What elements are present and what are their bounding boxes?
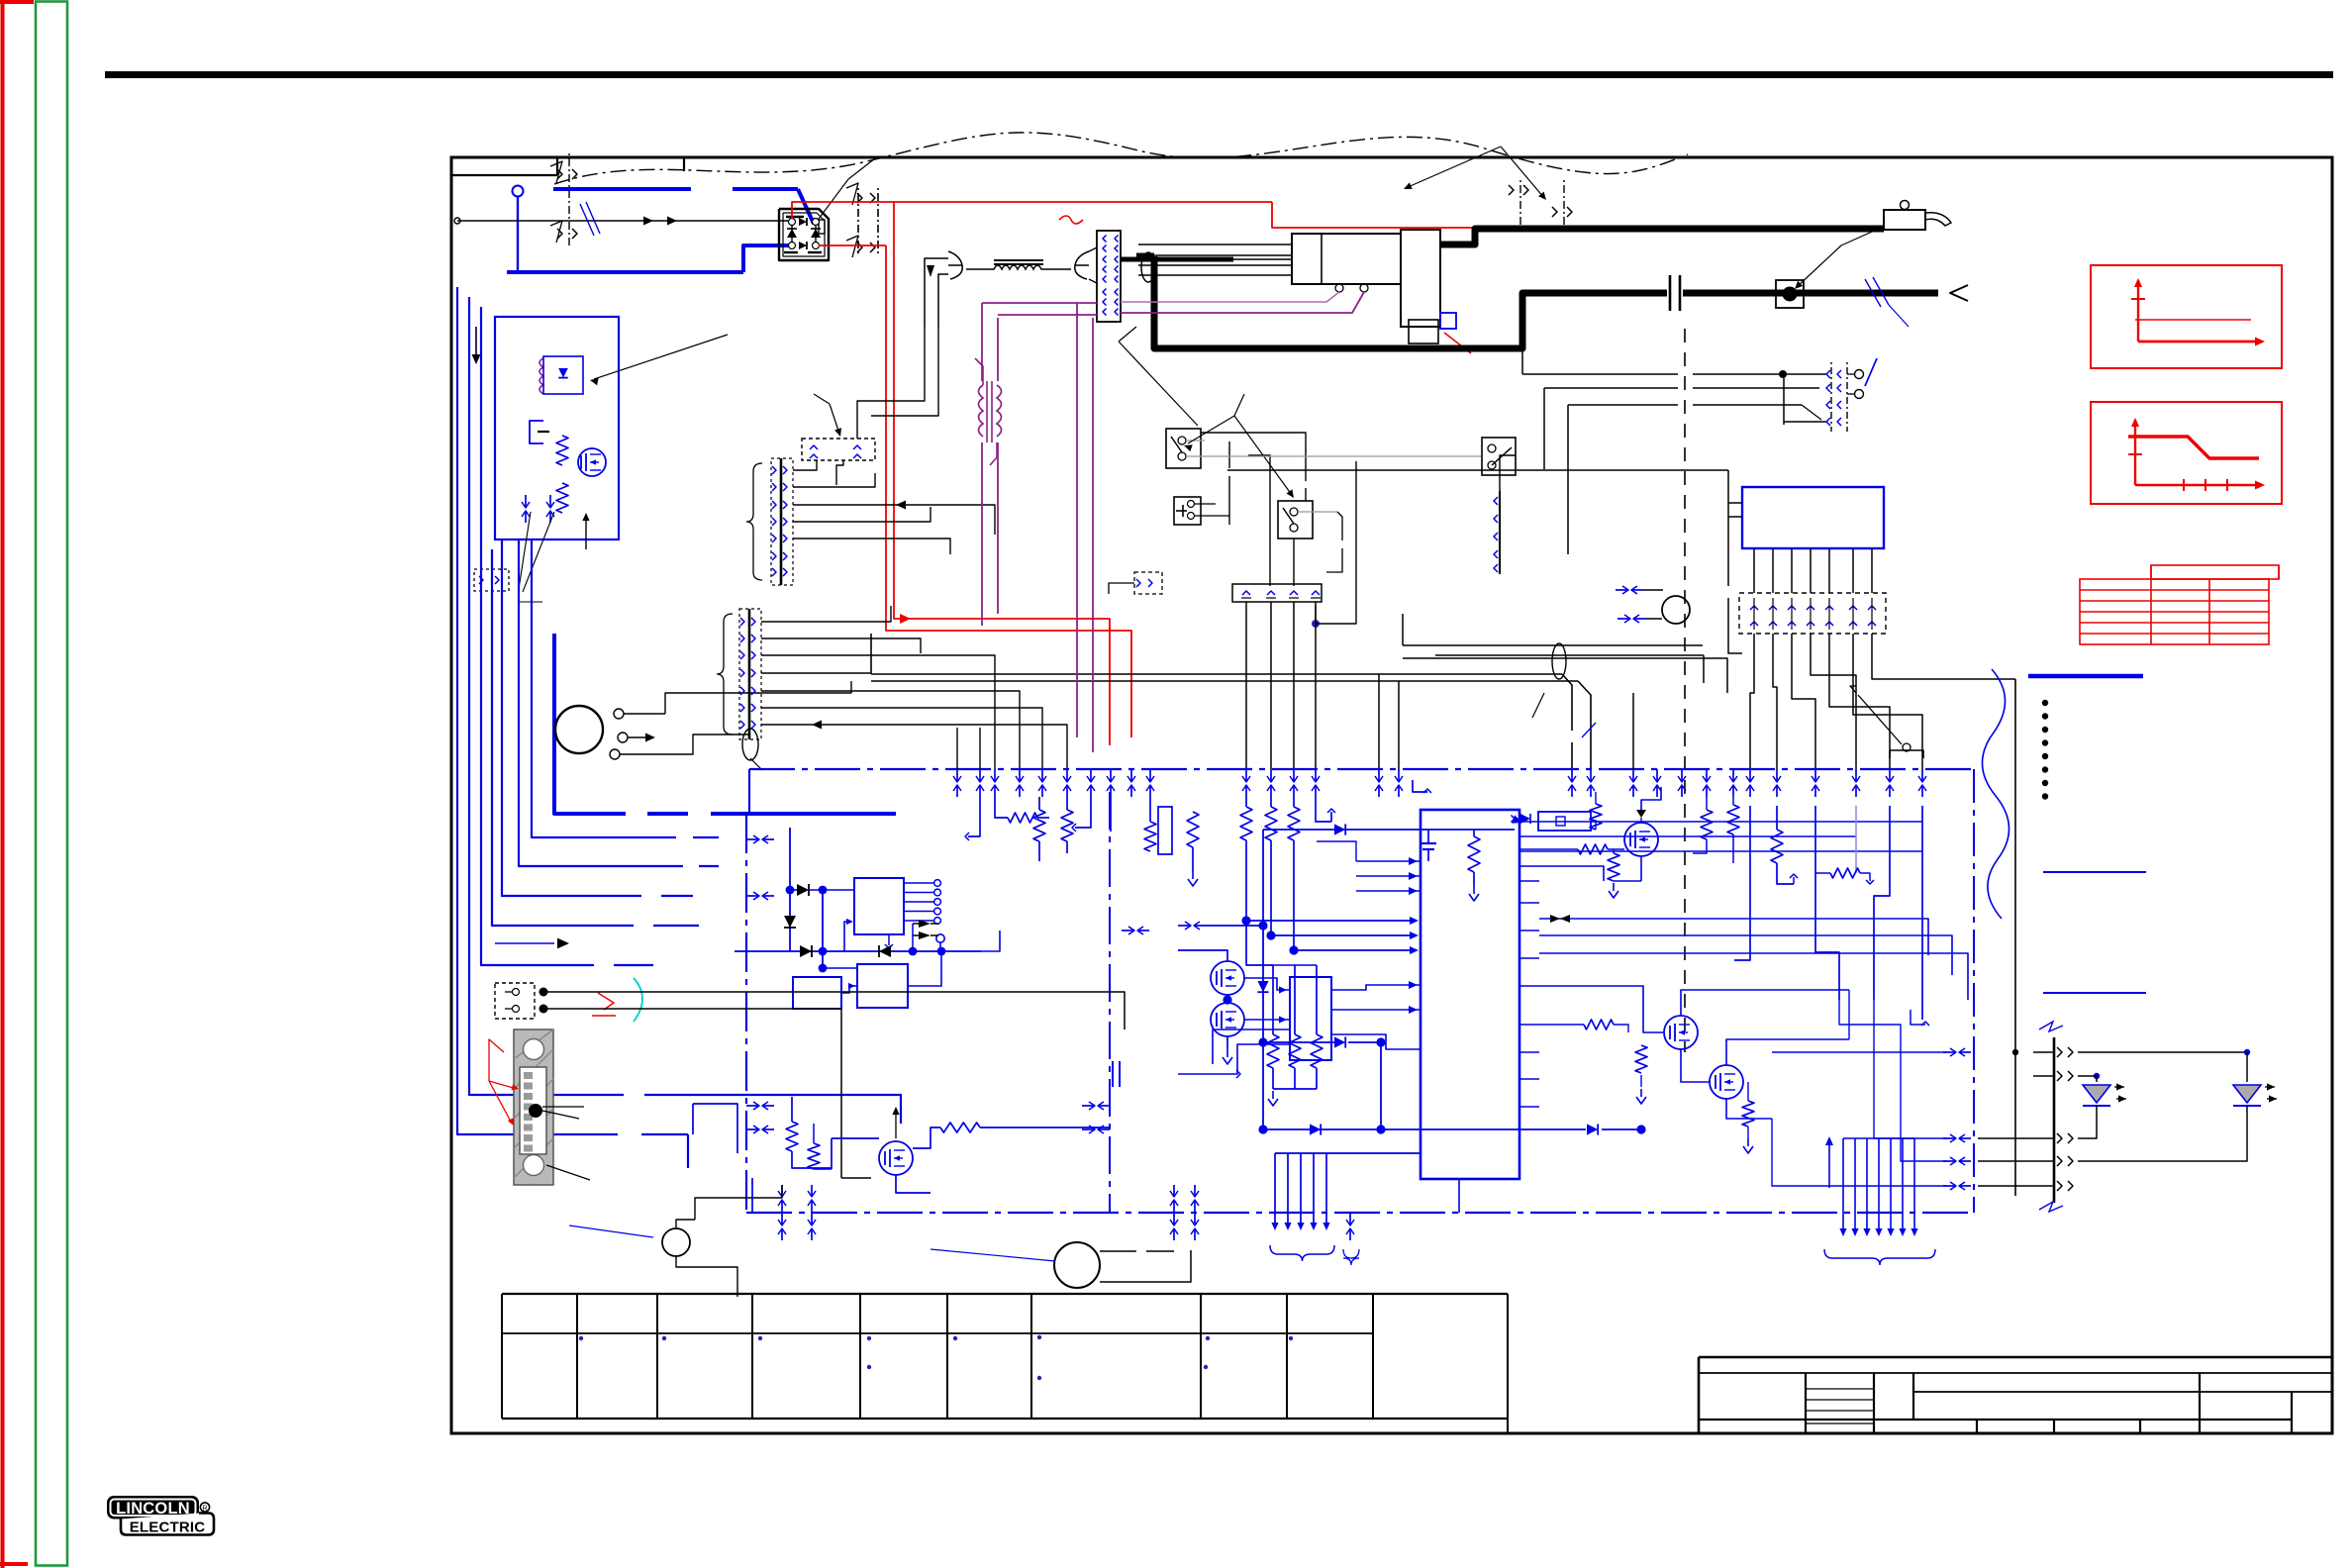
circle leader blue — [931, 1249, 1055, 1261]
aux box feed — [844, 922, 851, 951]
CT ellipse on feed — [1141, 252, 1155, 282]
q5 gate resistor — [940, 1123, 980, 1132]
switch S2 box — [1278, 501, 1313, 539]
blue supply wire 2 — [507, 270, 743, 274]
line break slash — [580, 204, 594, 236]
mosfet pair — [1211, 961, 1244, 995]
output connector strip — [2053, 1037, 2056, 1203]
right long lines to pins — [1886, 850, 1922, 852]
relay K1 coil — [539, 358, 543, 394]
opto arrows — [919, 920, 931, 928]
red wire top right — [1272, 202, 1520, 228]
display connector risers — [1750, 634, 1754, 769]
strip J2 fan wires — [761, 606, 891, 622]
CN5 risers to bus — [1245, 602, 1247, 769]
mcu bus entry — [981, 931, 1000, 951]
output wires to LEDs — [2078, 1051, 2247, 1053]
blue wires bottom left risers — [693, 1104, 737, 1153]
bus1-bus2 vertical link — [745, 814, 747, 1213]
net mid right — [1539, 919, 1928, 955]
aux box out right — [908, 951, 941, 986]
display pcb block — [1742, 487, 1884, 548]
bus gap pin mid — [1178, 925, 1190, 927]
q5 input resistors — [786, 1122, 798, 1151]
current shunt — [1776, 280, 1804, 308]
blue diagonal into bridge — [798, 189, 814, 224]
right net top — [1539, 821, 1922, 823]
page red margin border — [1, 0, 5, 1568]
CT loop on feed — [1552, 643, 1566, 679]
aux box row — [793, 977, 841, 1009]
test circle — [936, 934, 944, 942]
main schematic border frame — [451, 157, 2332, 1433]
choke core — [994, 259, 1043, 261]
page green margin box — [36, 2, 67, 1566]
connector strip CN4 — [1097, 231, 1121, 322]
relay contact — [530, 421, 543, 443]
dac box — [854, 878, 904, 934]
diode D11 down — [784, 916, 796, 928]
mcu bottom left fan — [1275, 1152, 1421, 1154]
motor terminal circles — [1335, 284, 1343, 292]
mcu block — [1421, 810, 1519, 1179]
diode down x1276 — [1257, 981, 1268, 992]
right pin tails — [1734, 806, 1750, 960]
blue lower risers — [481, 307, 594, 965]
mosfet Q1 right — [1624, 823, 1658, 856]
bus2 blue line — [746, 1212, 1974, 1214]
dac input rail — [789, 828, 791, 951]
thick black weld cable B — [1136, 253, 1154, 260]
choke fork right — [1075, 251, 1089, 279]
engine circle — [555, 706, 603, 753]
leader arrows top right — [1406, 147, 1501, 188]
bus1 pin symbols — [956, 769, 958, 781]
black vertical feed right — [2014, 679, 2016, 1052]
wire feed motor block — [1292, 234, 1401, 284]
rotary switch lever — [1855, 370, 1864, 379]
leader arrows shunt — [1797, 245, 1841, 287]
cable end fork — [1950, 285, 1968, 301]
frame top-left step — [451, 174, 557, 176]
bridge rectifier BR1 — [779, 209, 829, 260]
riser to far right — [1872, 634, 2015, 679]
control box pins — [525, 495, 527, 507]
connector table — [502, 1293, 1508, 1295]
small dashed connector — [474, 569, 509, 591]
blue diode rail — [1263, 829, 1515, 831]
led D2 — [2233, 1085, 2261, 1103]
led return wires — [2078, 1106, 2097, 1138]
bus2 pin right — [1349, 1213, 1351, 1225]
mid resistors under bus — [1038, 797, 1040, 810]
choke coil — [966, 265, 1071, 269]
connector strip J1 — [780, 458, 783, 585]
mosfet Q10 — [578, 448, 606, 476]
strip top connector box — [802, 439, 875, 460]
mosfet Q5 bottom — [879, 1141, 913, 1175]
purple transformer T2 — [986, 381, 988, 442]
diode D13 left — [879, 945, 891, 957]
vertical link x1121 — [1109, 792, 1111, 1213]
red graph 2 frame — [2091, 402, 2282, 504]
gate resistor q1 — [1578, 844, 1608, 854]
connector row CN5 — [1232, 584, 1322, 602]
gray link S1-S4 — [1205, 455, 1482, 457]
bus2 pins left — [781, 1213, 783, 1225]
bus risers from switch area — [1632, 693, 1634, 769]
bold blue riser — [554, 634, 626, 814]
fan small brace — [1343, 1249, 1359, 1265]
display connector CN7 — [1739, 593, 1886, 634]
diode row 2 — [1334, 1036, 1345, 1047]
leader to strip box — [830, 404, 839, 434]
mcu bottom wire to bus2 — [1458, 1179, 1460, 1213]
choke fork left — [948, 251, 962, 279]
rotary connector strip — [1830, 362, 1832, 432]
svg-text:ELECTRIC: ELECTRIC — [130, 1519, 206, 1536]
display block pins down — [1753, 548, 1755, 593]
pin stub 1329 — [1316, 797, 1331, 822]
mosfet Q4 — [1710, 1065, 1743, 1099]
pin resistors 1724 1751 — [1701, 810, 1713, 839]
lincoln electric logo — [107, 1496, 214, 1536]
buzzer leader — [569, 1225, 653, 1237]
mcu right outputs — [1519, 821, 1539, 823]
dac outputs — [904, 882, 933, 884]
mode switch connector — [1499, 491, 1501, 574]
junction rail y961 — [735, 950, 981, 952]
main blue bus line — [749, 768, 1974, 770]
bus2 right fan group — [1842, 1138, 1844, 1231]
leader arrows switches — [1234, 394, 1244, 416]
break slashes blue — [1865, 279, 1881, 307]
riser jumper box — [1890, 750, 1923, 758]
switch S3 battery box — [1174, 497, 1201, 525]
capacitor on cable B — [1669, 275, 1672, 311]
vertical join — [822, 890, 824, 968]
driver box — [1290, 977, 1331, 1060]
hook below bus — [1413, 780, 1427, 792]
purple lower run — [981, 442, 983, 626]
purple wires — [981, 303, 983, 381]
left blue riser 2 — [519, 539, 683, 866]
leader to relay — [594, 335, 728, 379]
red wire from bridge — [792, 202, 1272, 219]
J2 brace — [717, 614, 733, 735]
red small arrow mid — [598, 993, 614, 1010]
cable S separator left — [1982, 669, 2009, 919]
net lower right — [1539, 986, 1663, 1032]
CT circle — [1662, 596, 1690, 624]
svg-text:R: R — [202, 1506, 207, 1513]
ladder joins — [1246, 871, 1416, 921]
wires to mosfet Q5 — [841, 1177, 871, 1179]
left blue riser 3 — [502, 539, 641, 896]
aux box wires — [547, 991, 643, 993]
red data table — [2080, 579, 2269, 644]
thick black weld cable A — [1440, 229, 1884, 245]
harness wavy cable run — [554, 133, 1688, 184]
bold blue stub right — [2028, 674, 2143, 679]
mode switch box S4 — [1482, 438, 1516, 475]
connector CN2 — [857, 188, 859, 255]
aux connector box left — [495, 983, 535, 1019]
vertical link right — [1973, 769, 1975, 1213]
red spark line — [1444, 333, 1471, 353]
dashed partition line — [1684, 329, 1686, 1052]
red pair vertical run — [894, 202, 1110, 745]
led D1 — [2083, 1085, 2110, 1103]
connector strip J2 — [748, 609, 751, 739]
title block — [1699, 1356, 2332, 1359]
input blue lead — [517, 197, 519, 272]
control box rect — [495, 317, 619, 539]
leader arrows from pins — [519, 512, 531, 589]
mid L stubs — [1075, 797, 1091, 828]
driver inputs left — [1178, 1044, 1290, 1074]
switch S1 box — [1166, 429, 1201, 468]
aux motor circle — [1054, 1242, 1100, 1288]
blue arrow mark — [495, 942, 554, 944]
table cell marks — [579, 1336, 583, 1340]
display block wires left — [1728, 502, 1742, 504]
bold blue bottom run — [457, 1133, 618, 1135]
diode row 3 bottom — [1263, 1128, 1326, 1130]
lower resistor trio — [1272, 965, 1274, 1034]
CN5 dot link — [1312, 620, 1320, 628]
long black mid wires — [1403, 644, 1703, 646]
connector CN1 — [568, 153, 570, 247]
top title rule — [105, 71, 2333, 78]
led bar panel — [514, 1029, 553, 1185]
black risers x1393 — [1378, 674, 1380, 769]
left blue riser 1 — [532, 539, 676, 837]
engine terminals — [614, 709, 624, 719]
opto input box — [1538, 812, 1591, 831]
cyan arc — [634, 978, 642, 1022]
dac ground — [888, 934, 890, 945]
bottom pins mid — [1173, 1213, 1175, 1225]
terminal dots column — [2042, 700, 2048, 706]
double black feed line — [871, 673, 1562, 675]
weld gun — [1884, 210, 1925, 230]
diode D12 — [800, 945, 812, 957]
buzzer circle — [662, 1228, 690, 1256]
L stub top right — [1911, 1010, 1925, 1025]
cap and resistor branch — [1427, 830, 1429, 843]
input terminal circle — [513, 186, 524, 197]
fan brace — [1270, 1245, 1334, 1261]
led bar leaders black — [542, 1111, 579, 1119]
vertical drop x1276 — [1262, 926, 1264, 1129]
red graph 1 axes — [2137, 280, 2139, 342]
thin supply line — [457, 220, 789, 222]
output pins blue — [1943, 1051, 1955, 1053]
leader arrow to cable — [816, 179, 848, 223]
red graph 2 curve — [2134, 420, 2136, 485]
down arrow — [475, 327, 477, 358]
pin arrow up — [585, 515, 587, 549]
right rotary switch wires — [1522, 373, 1678, 375]
led bar leaders red — [489, 1039, 517, 1089]
blue long bottom wire — [469, 1094, 624, 1096]
cap bars on link — [1112, 1061, 1114, 1087]
feed line y475 — [1227, 469, 1728, 471]
transformer connector CN3 — [1519, 180, 1521, 226]
blue supply wire top — [553, 187, 691, 191]
S1 wires — [1201, 433, 1306, 481]
wire loop sensor — [742, 729, 758, 760]
strip J1 fan wires — [793, 473, 875, 487]
choke feed wires — [925, 258, 948, 327]
jumper lines right — [2043, 871, 2146, 873]
thick black to motor — [1121, 257, 1233, 262]
dash box CN6 — [1134, 572, 1162, 594]
left blue riser 4 — [492, 549, 634, 926]
resistor ladder left — [1245, 797, 1247, 807]
red squiggle mark — [1059, 216, 1083, 224]
diode D10 — [797, 884, 809, 896]
red graph 1 frame — [2091, 265, 2282, 368]
mosfet Q3 — [1664, 1016, 1698, 1049]
black stubs above bus — [956, 728, 958, 769]
link pins — [746, 838, 758, 840]
mcu left input arrows — [1356, 860, 1421, 862]
gas solenoid small box — [1440, 313, 1456, 329]
black wires to motor — [1138, 244, 1292, 245]
right fan brace — [1824, 1249, 1935, 1265]
control box outer loop — [469, 297, 624, 1095]
